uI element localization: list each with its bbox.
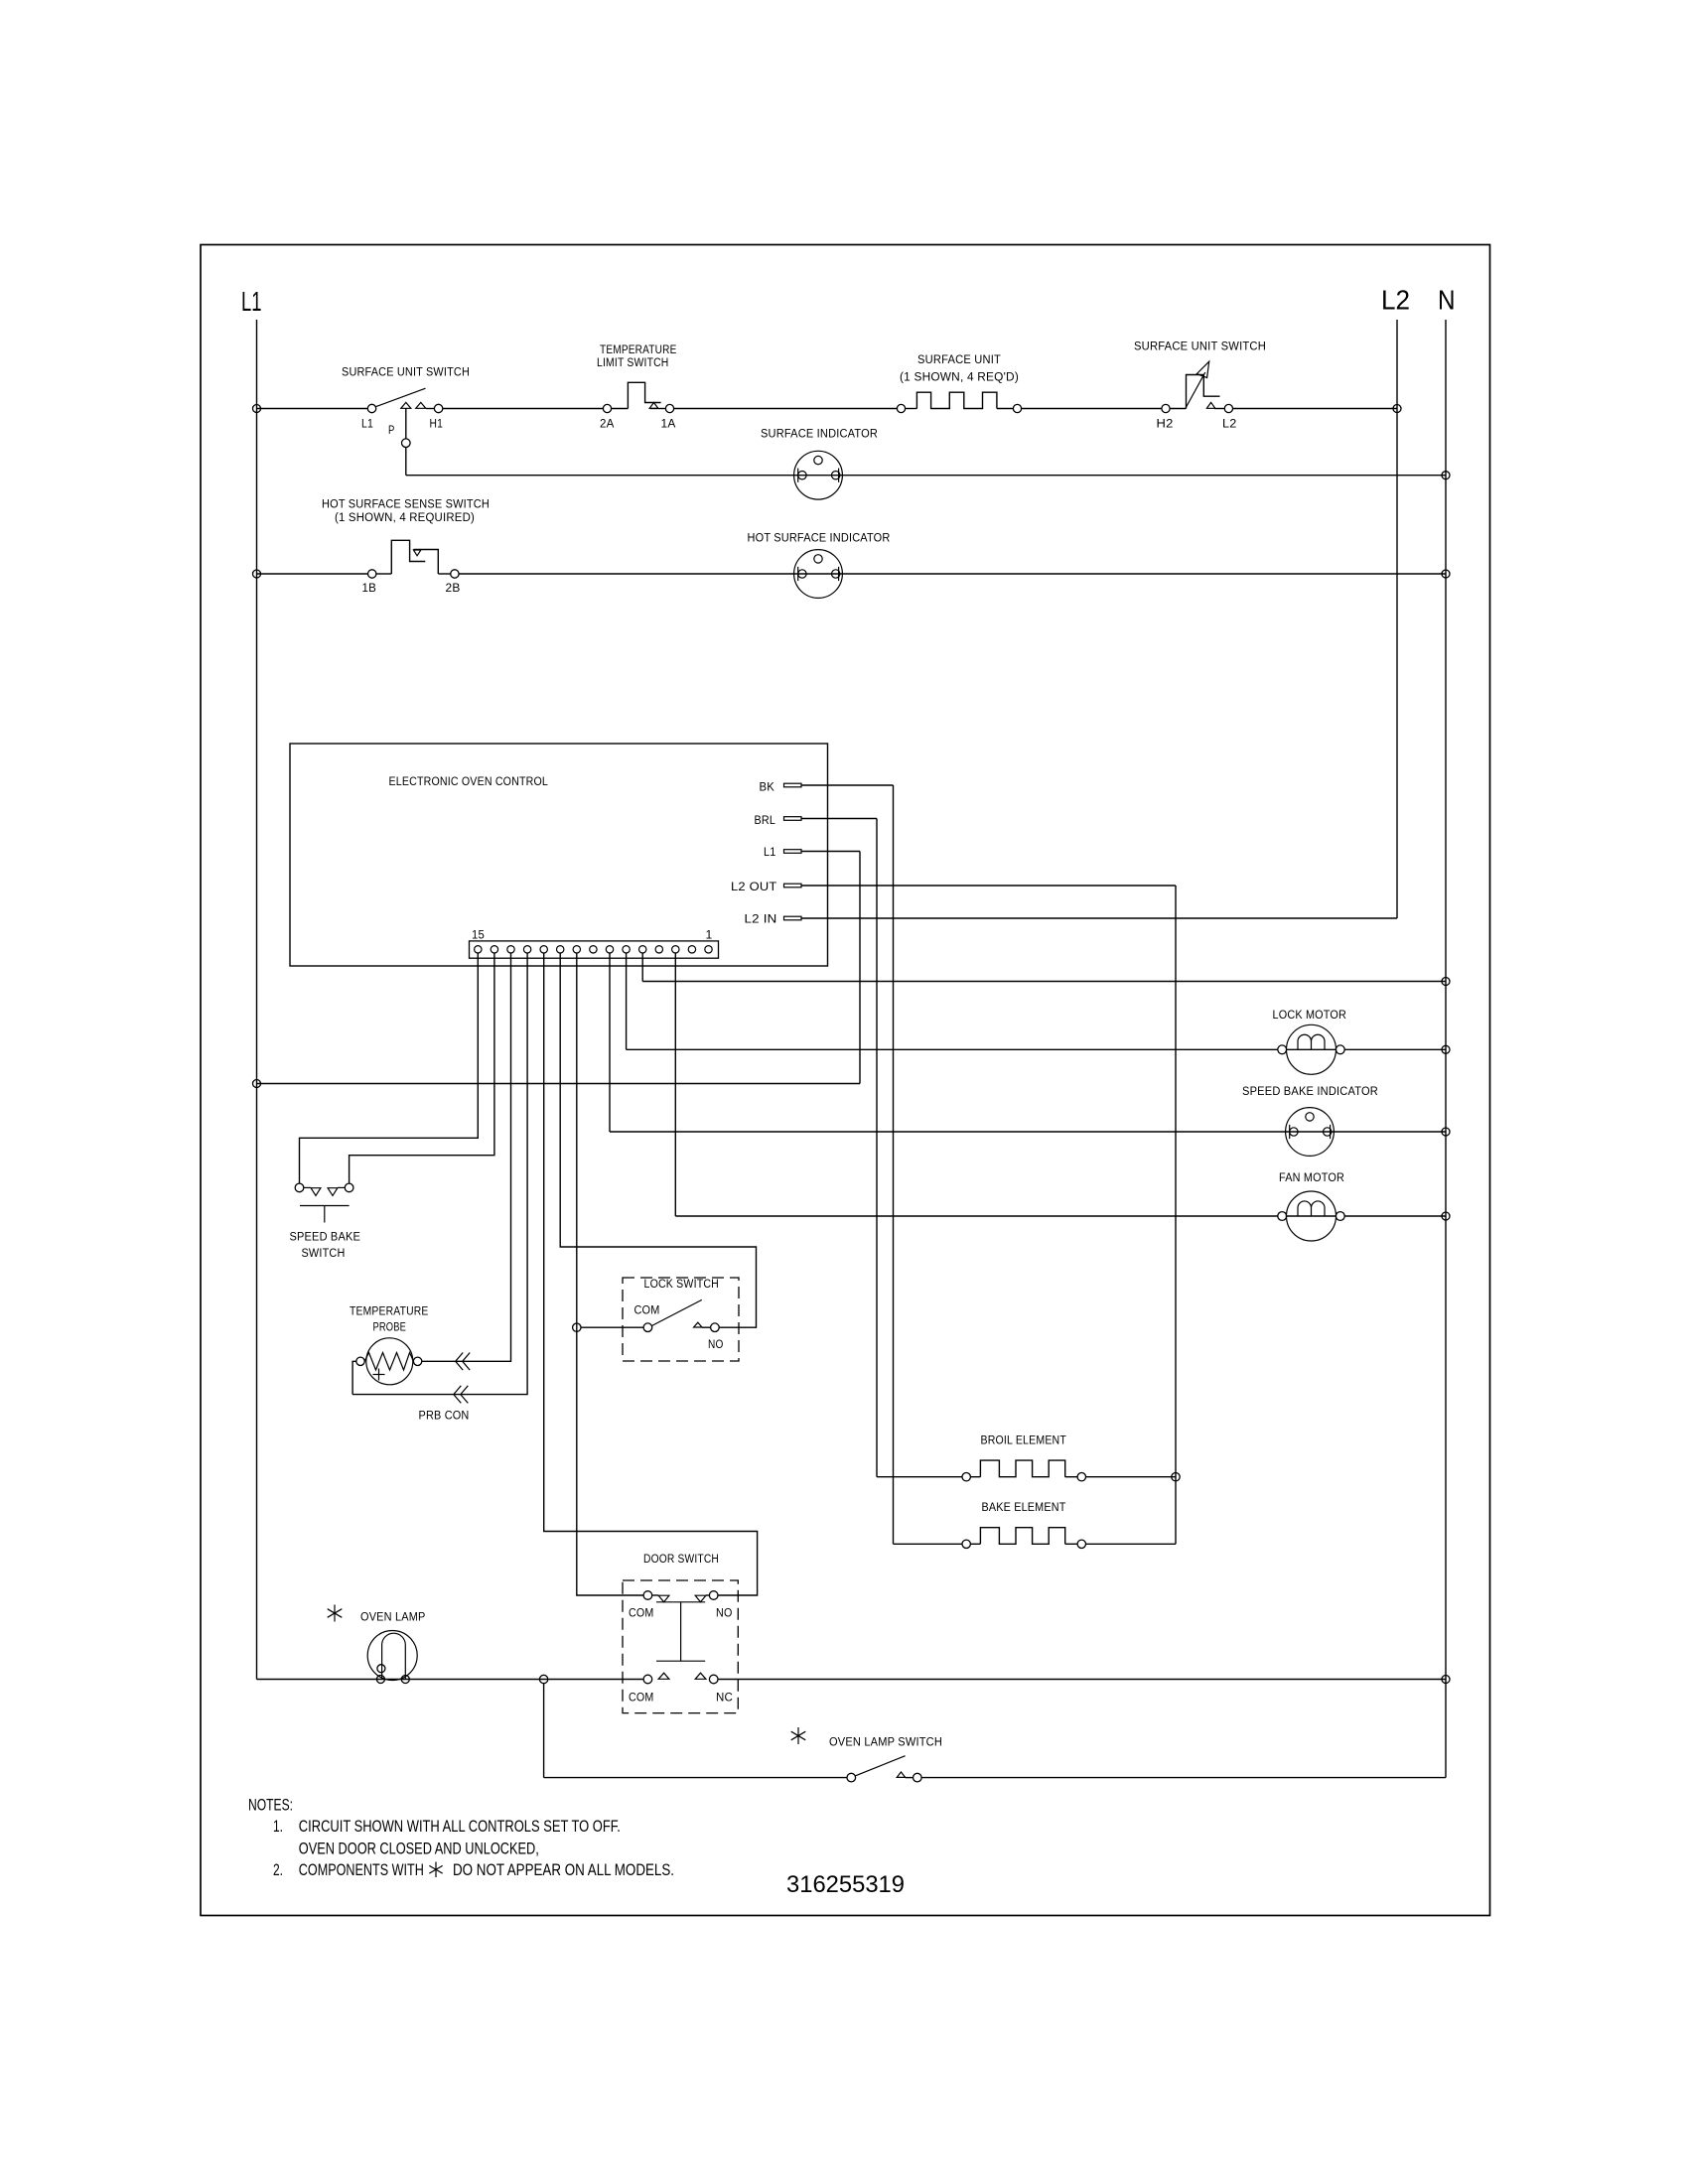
- svg-text:L1: L1: [361, 419, 373, 431]
- strip pin circles: [475, 946, 713, 953]
- wire row2 P to surface indicator: [406, 475, 1446, 477]
- svg-text:HOT SURFACE INDICATOR: HOT SURFACE INDICATOR: [748, 533, 891, 545]
- svg-text:OVEN LAMP: OVEN LAMP: [360, 1612, 426, 1624]
- svg-text:OVEN DOOR CLOSED AND UNLOCKED,: OVEN DOOR CLOSED AND UNLOCKED,: [299, 1841, 539, 1858]
- junction N rail SBI row: [1442, 1128, 1450, 1136]
- svg-text:1: 1: [706, 930, 713, 942]
- surface unit switch right: blade: [1186, 372, 1205, 409]
- wire lock switch feed: [581, 1326, 643, 1328]
- wire door lower row to N: [718, 1679, 1446, 1681]
- wire broil row left: [877, 1476, 962, 1478]
- wire row1 L1 to surface unit switch: [257, 408, 368, 410]
- lock motor M1: [1278, 1024, 1344, 1074]
- probe top chevron connector: [456, 1353, 471, 1371]
- junction broil to L2 OUT vertical: [1172, 1473, 1180, 1481]
- oven lamp switch blade: [856, 1756, 906, 1776]
- door switch upper NO terminal: [709, 1591, 718, 1600]
- wire L2 OUT lead: [801, 885, 1176, 887]
- svg-text:SWITCH: SWITCH: [302, 1248, 346, 1260]
- wire lock switch triangle lead: [702, 1326, 711, 1328]
- junction L1 rail row3: [253, 570, 261, 578]
- door switch upper triangle 1: [658, 1595, 669, 1602]
- svg-text:2A: 2A: [600, 419, 615, 431]
- surface unit switch left: contact triangle H1: [416, 402, 426, 408]
- wire fan motor row: [675, 1215, 1446, 1217]
- wire L2 OUT vertical: [1175, 886, 1177, 1544]
- svg-text:COMPONENTS WITH: COMPONENTS WITH: [299, 1861, 424, 1879]
- wire pin3 drop to fan motor row: [674, 953, 676, 1216]
- svg-text:2.: 2.: [273, 1861, 283, 1879]
- junction pin9 lock switch feed: [573, 1323, 581, 1331]
- speed bake indicator lamp: [1286, 1108, 1335, 1157]
- surface unit switch right: terminal L2: [1224, 404, 1232, 412]
- svg-text:H2: H2: [1157, 419, 1174, 431]
- hot surface indicator lamp: [794, 550, 843, 599]
- svg-text:1.: 1.: [273, 1818, 283, 1836]
- wire BK terminal lead: [801, 784, 894, 786]
- svg-text:BROIL ELEMENT: BROIL ELEMENT: [981, 1435, 1067, 1447]
- door switch box: [623, 1580, 738, 1713]
- junction N rail fan row: [1442, 1212, 1450, 1220]
- wire pin12 drop to probe return: [352, 953, 527, 1395]
- door switch upper NO lead: [706, 1594, 710, 1596]
- broil element lead right: [1065, 1476, 1077, 1478]
- svg-text:TEMPERATURE: TEMPERATURE: [350, 1306, 429, 1318]
- lock switch contact triangle: [694, 1322, 702, 1327]
- surface unit switch right: contact triangle: [1206, 402, 1214, 408]
- oven lamp asterisk: [328, 1605, 343, 1622]
- svg-text:TEMPERATURE: TEMPERATURE: [600, 344, 677, 356]
- svg-text:L2 IN: L2 IN: [745, 914, 777, 926]
- broil element left terminal: [962, 1473, 970, 1481]
- speed bake switch S1: [295, 1183, 353, 1222]
- surface unit switch left: terminal L1: [367, 404, 375, 412]
- wire pin7 drop to speed bake indicator row: [609, 953, 611, 1132]
- svg-text:L1: L1: [764, 847, 776, 859]
- junction N rail door row: [1442, 1676, 1450, 1684]
- surface unit switch right: arrow head: [1196, 361, 1208, 377]
- wire N rail: [1445, 320, 1447, 1778]
- svg-text:L2 OUT: L2 OUT: [731, 882, 777, 893]
- door switch actuator: [656, 1602, 705, 1661]
- svg-text:OVEN LAMP SWITCH: OVEN LAMP SWITCH: [829, 1737, 942, 1749]
- wire L1 rail: [256, 320, 258, 1680]
- svg-text:SURFACE UNIT SWITCH: SURFACE UNIT SWITCH: [342, 367, 470, 379]
- svg-text:2B: 2B: [446, 583, 461, 595]
- temperature limit switch: terminal 2A: [603, 404, 611, 412]
- svg-text:NO: NO: [716, 1608, 733, 1620]
- wire pin13 drop to probe: [422, 953, 511, 1361]
- svg-text:N: N: [1438, 285, 1456, 316]
- surface unit switch right: terminal H2: [1162, 404, 1170, 412]
- sense switch contact triangle: [413, 550, 421, 556]
- svg-text:NOTES:: NOTES:: [248, 1797, 293, 1815]
- svg-text:L2: L2: [1222, 419, 1237, 431]
- door switch upper COM terminal: [643, 1591, 652, 1600]
- svg-text:SURFACE UNIT: SURFACE UNIT: [917, 354, 1001, 366]
- wire lock motor row: [627, 1048, 1446, 1050]
- wire row1 switch to limit switch 2A: [426, 408, 434, 410]
- wire L2 rail: [1396, 320, 1398, 918]
- wire L1 vertical: [859, 852, 861, 1084]
- svg-text:DOOR SWITCH: DOOR SWITCH: [643, 1554, 719, 1566]
- svg-text:NO: NO: [708, 1339, 724, 1351]
- junction N rail pin5 row: [1442, 978, 1450, 986]
- broil element resistor: [980, 1460, 1064, 1477]
- broil element lead: [970, 1476, 980, 1478]
- svg-text:15: 15: [472, 930, 485, 942]
- bake element resistor: [980, 1528, 1064, 1545]
- svg-text:COM: COM: [629, 1608, 654, 1620]
- junction L1 rail feed row: [253, 1080, 261, 1088]
- oven lamp switch asterisk: [791, 1727, 806, 1744]
- bake element lead: [970, 1543, 980, 1545]
- svg-text:ELECTRONIC OVEN CONTROL: ELECTRONIC OVEN CONTROL: [389, 776, 549, 788]
- surface unit: resistor element: [916, 392, 997, 408]
- wire broil row right: [1086, 1476, 1177, 1478]
- svg-text:CIRCUIT SHOWN WITH ALL CONTROL: CIRCUIT SHOWN WITH ALL CONTROLS SET TO O…: [299, 1818, 621, 1836]
- junction N rail row3: [1442, 570, 1450, 578]
- wire row1 triangle to L2 terminal: [1214, 408, 1224, 410]
- wire door lower row from L1: [257, 1679, 644, 1681]
- svg-text:LOCK SWITCH: LOCK SWITCH: [644, 1279, 720, 1291]
- wire P drop to row2: [405, 409, 407, 439]
- wire BK vertical to bake element: [893, 785, 895, 1544]
- svg-text:LOCK MOTOR: LOCK MOTOR: [1273, 1010, 1347, 1022]
- junction L1 rail row1: [253, 405, 261, 413]
- wire row1 resistor leads: [906, 408, 917, 410]
- wire row1 H2 to switch pivot: [1170, 408, 1186, 410]
- lock switch COM terminal: [643, 1323, 652, 1332]
- oven lamp switch contact triangle: [897, 1772, 906, 1777]
- svg-text:SPEED BAKE: SPEED BAKE: [290, 1232, 361, 1244]
- svg-text:(1 SHOWN, 4 REQUIRED): (1 SHOWN, 4 REQUIRED): [335, 512, 475, 524]
- wire row pin5 to N: [642, 981, 1446, 983]
- temperature limit switch: contact triangle: [649, 403, 658, 409]
- svg-text:BRL: BRL: [755, 815, 776, 827]
- lock switch box: [623, 1278, 739, 1361]
- wire bake row left: [894, 1543, 963, 1545]
- wire pin9 drop to door switch COM: [577, 953, 643, 1595]
- door switch upper contact lead: [652, 1594, 659, 1596]
- junction N rail lock motor row: [1442, 1045, 1450, 1053]
- svg-text:COM: COM: [629, 1693, 654, 1705]
- door switch lower COM terminal: [643, 1675, 652, 1684]
- door switch lower NC terminal: [709, 1675, 718, 1684]
- wire pin6 drop to lock motor row: [626, 953, 628, 1049]
- electronic oven control box U1: [290, 744, 828, 966]
- oven lamp switch right terminal: [914, 1773, 922, 1782]
- surface unit: right terminal: [1013, 404, 1021, 412]
- bake element left terminal: [962, 1540, 970, 1548]
- temperature limit switch: bridge: [628, 382, 660, 408]
- sense switch terminal 1B: [368, 570, 376, 578]
- fan motor M2: [1278, 1191, 1344, 1241]
- wire pin14 drop: [350, 953, 494, 1183]
- wire bake row right: [1086, 1543, 1177, 1545]
- sense switch terminal 2B: [451, 570, 459, 578]
- svg-text:NC: NC: [716, 1693, 733, 1705]
- oven lamp switch left terminal: [847, 1773, 856, 1782]
- svg-text:P: P: [388, 425, 395, 437]
- door switch upper triangle 2: [695, 1595, 706, 1602]
- svg-text:BK: BK: [760, 782, 775, 794]
- wire pin5 drop to N row: [641, 953, 643, 982]
- wire probe left loop: [352, 1361, 356, 1394]
- oven lamp DS1: [367, 1631, 417, 1684]
- svg-text:SURFACE INDICATOR: SURFACE INDICATOR: [761, 429, 878, 441]
- EOC terminal strip: [470, 941, 719, 958]
- sense switch right contact: [414, 550, 439, 575]
- wire pin15 drop: [300, 953, 479, 1183]
- wire speed bake indicator row: [610, 1131, 1446, 1133]
- wire row3 2B to hot surface indicator and N: [459, 573, 1446, 575]
- svg-text:SURFACE UNIT SWITCH: SURFACE UNIT SWITCH: [1134, 341, 1266, 353]
- svg-text:PROBE: PROBE: [373, 1322, 407, 1334]
- svg-text:HOT SURFACE SENSE SWITCH: HOT SURFACE SENSE SWITCH: [322, 499, 490, 511]
- svg-text:1A: 1A: [661, 419, 676, 431]
- surface unit: left terminal: [897, 404, 905, 412]
- svg-text:L1: L1: [241, 286, 262, 317]
- broil element right terminal: [1077, 1473, 1085, 1481]
- svg-text:SPEED BAKE INDICATOR: SPEED BAKE INDICATOR: [1242, 1086, 1378, 1098]
- wire BRL vertical to broil element: [876, 819, 878, 1477]
- note 2 asterisk: [429, 1862, 442, 1878]
- lock switch NO terminal: [711, 1323, 720, 1332]
- junction N rail row2: [1442, 472, 1450, 479]
- wire lamp switch row left: [544, 1777, 848, 1779]
- svg-text:COM: COM: [634, 1305, 660, 1317]
- svg-text:LIMIT SWITCH: LIMIT SWITCH: [597, 357, 669, 369]
- wire row1 1A to surface unit: [650, 408, 666, 410]
- temperature probe RT1: [356, 1338, 422, 1385]
- wire pin11 drop to door switch NO: [544, 953, 758, 1595]
- wire row3 L1 to 1B: [257, 573, 368, 575]
- surface unit switch left: terminal H1: [434, 404, 442, 412]
- wire row1 surface unit to H2: [1022, 408, 1162, 410]
- wire L1 terminal lead: [801, 851, 860, 853]
- wire L1 feed row to EOC L1: [257, 1083, 861, 1085]
- junction L2 rail row1: [1393, 405, 1401, 413]
- svg-text:H1: H1: [430, 419, 444, 431]
- terminal P: [402, 439, 411, 448]
- wire row1 2A to bump: [612, 408, 629, 410]
- sense switch bridge: [391, 540, 425, 574]
- svg-text:BAKE ELEMENT: BAKE ELEMENT: [982, 1502, 1066, 1514]
- wire row1 L2 terminal to L2 rail: [1233, 408, 1397, 410]
- bake element lead right: [1065, 1543, 1077, 1545]
- lock switch blade: [652, 1299, 702, 1325]
- surface unit switch right: step bracket: [1187, 375, 1220, 409]
- svg-text:1B: 1B: [362, 583, 377, 595]
- probe bottom chevron connector: [454, 1386, 469, 1404]
- surface indicator lamp: [794, 451, 843, 499]
- junction oven lamp switch tap: [539, 1675, 547, 1683]
- surface unit switch left: blade: [376, 388, 426, 406]
- temperature limit switch: terminal 1A: [665, 404, 673, 412]
- door switch lower triangle 1: [658, 1673, 669, 1679]
- wire bump to 2B: [438, 573, 450, 575]
- svg-text:316255319: 316255319: [786, 1871, 905, 1898]
- svg-text:L2: L2: [1381, 285, 1410, 316]
- wire pin10 drop to lock switch NO: [560, 953, 756, 1327]
- door switch lower triangle 2: [695, 1673, 706, 1679]
- wire lamp switch drop: [543, 1684, 545, 1778]
- svg-text:FAN MOTOR: FAN MOTOR: [1279, 1172, 1344, 1184]
- wire 1B to bump: [376, 573, 391, 575]
- svg-text:PRB CON: PRB CON: [419, 1411, 470, 1423]
- surface unit switch left: pivot triangle P: [401, 402, 411, 408]
- bake element right terminal: [1077, 1540, 1085, 1548]
- svg-text:(1 SHOWN, 4 REQ'D): (1 SHOWN, 4 REQ'D): [900, 372, 1019, 384]
- wire lamp switch row right to N: [906, 1777, 914, 1779]
- wire BRL terminal lead: [801, 818, 877, 820]
- svg-text:DO NOT APPEAR ON ALL MODELS.: DO NOT APPEAR ON ALL MODELS.: [453, 1861, 674, 1879]
- wire L2 IN lead to L2 rail: [801, 917, 1397, 919]
